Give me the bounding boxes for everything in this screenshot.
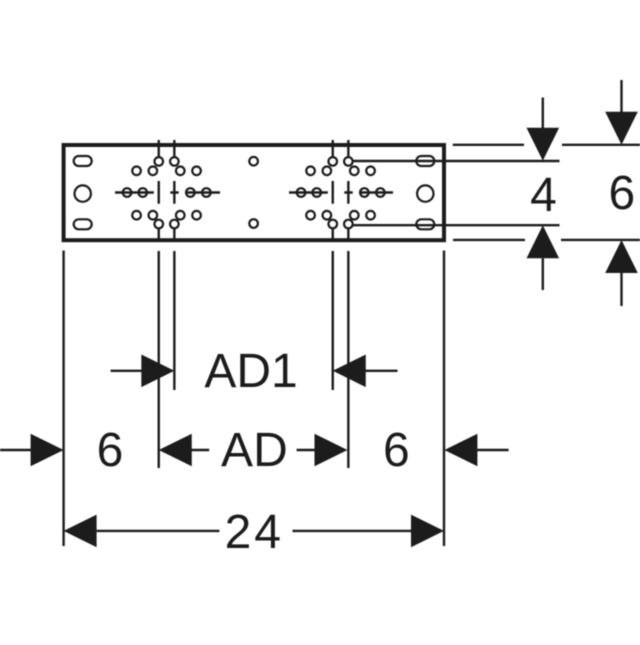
dimension 6 right bottom arrow (605, 240, 638, 273)
dimension 24 left arrow (64, 515, 97, 548)
cluster holes (328, 157, 337, 166)
left edge top slot (74, 156, 92, 166)
left edge bottom slot (74, 219, 92, 229)
centerline vertical right (inner) in-plate (173, 140, 175, 240)
horizontal centerline (115, 191, 220, 193)
extension line below left cluster outer (158, 251, 160, 468)
left hole cluster (115, 140, 220, 240)
svg-text:24: 24 (225, 506, 284, 559)
lone circle bottom center (249, 219, 258, 228)
centerline vertical left (outer) in-plate (158, 140, 160, 240)
extension line below right cluster inner (332, 251, 334, 390)
svg-text:6: 6 (383, 424, 410, 477)
right edge middle circle (417, 185, 433, 201)
lone circle top center (249, 157, 258, 166)
dimension AD1 right arrow (333, 355, 366, 388)
dim-4 extension line top (353, 160, 560, 162)
dim-4 extension line bottom (353, 224, 560, 226)
dimension AD right arrow (297, 449, 315, 451)
dimension 4 top arrow (542, 98, 544, 129)
horizontal centerline (289, 191, 393, 193)
dimension AD1 left arrow (111, 370, 142, 372)
mounting plate outline (64, 145, 444, 240)
dimension 24 right arrow (293, 530, 412, 532)
cluster holes (154, 157, 163, 166)
extension line below right cluster outer (347, 251, 349, 468)
dimension 4 bottom arrow (527, 225, 560, 258)
dimension 6 left outer arrow (0, 449, 31, 451)
left edge middle circle (75, 185, 91, 201)
dimension AD left arrow (159, 434, 192, 467)
extension line below left cluster inner (173, 251, 175, 390)
svg-text:AD: AD (221, 424, 288, 477)
right edge top slot (416, 156, 434, 166)
extension line below plate right edge (443, 251, 445, 547)
svg-text:6: 6 (608, 167, 635, 220)
svg-text:4: 4 (530, 169, 557, 222)
svg-text:6: 6 (97, 424, 124, 477)
dimension 6 right outer arrow (444, 434, 477, 467)
dimension 6 right top arrow (620, 80, 622, 112)
right hole cluster (289, 140, 393, 240)
right edge bottom slot (416, 219, 434, 229)
centerline vertical left (inner) in-plate (332, 140, 334, 240)
svg-text:AD1: AD1 (204, 345, 297, 398)
dim-6 right extension line bottom (453, 239, 640, 241)
extension line below plate left edge (62, 251, 64, 547)
dim-6 right extension line top (453, 144, 640, 146)
centerline vertical right (outer) in-plate (347, 140, 349, 240)
